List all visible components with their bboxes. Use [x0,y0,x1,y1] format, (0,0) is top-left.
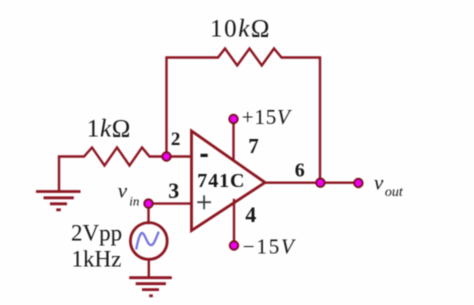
svg-text:4: 4 [245,202,256,227]
svg-text:−15V: −15V [243,235,296,259]
svg-text:3: 3 [168,178,179,203]
svg-text:2Vpp: 2Vpp [71,221,122,246]
svg-text:1kHz: 1kHz [72,247,122,272]
svg-text:+15V: +15V [242,105,292,129]
svg-text:10kΩ: 10kΩ [210,15,271,42]
svg-text:6: 6 [295,160,305,182]
svg-text:2: 2 [171,129,181,150]
svg-text:741C: 741C [197,170,245,192]
svg-text:1kΩ: 1kΩ [87,116,131,143]
svg-text:7: 7 [248,134,259,158]
